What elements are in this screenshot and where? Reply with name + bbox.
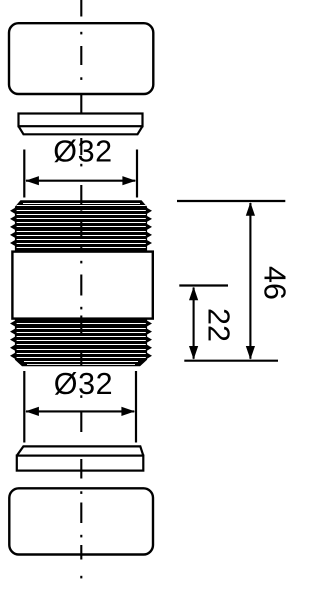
nut N1 (top coupling nut) [9, 23, 153, 94]
thread T2 (lower external thread) [10, 320, 152, 367]
dimension D1 line with arrows [26, 180, 135, 182]
svg-text:22: 22 [202, 308, 236, 342]
shared bottom extension line [184, 360, 278, 362]
nut N2 (bottom coupling nut) [9, 488, 153, 554]
svg-text:Ø32: Ø32 [54, 367, 113, 401]
dimension D3 (46) extension line top [177, 200, 285, 202]
washer W2 (bottom conical gasket) [17, 446, 144, 470]
dimension D2 line with arrows [26, 410, 134, 412]
svg-text:Ø32: Ø32 [53, 135, 112, 169]
dimension D2 label Ø32 (bottom) [54, 367, 113, 401]
dimension D2 extension lines [23, 371, 25, 443]
pipe body (smooth middle section) [12, 252, 152, 319]
dimension D1 extension lines [23, 150, 25, 198]
washer W1 (top conical gasket) [19, 114, 143, 135]
dimension D4 line with arrows (22) [193, 288, 195, 359]
centerline (dash-dot axis) [80, 0, 82, 17]
dimension D4 (22) extension line [179, 284, 228, 286]
thread T1 (upper external thread) [10, 200, 152, 251]
dimension D1 label Ø32 (top) [53, 135, 112, 169]
dimension D3 label 46 [258, 266, 292, 300]
svg-text:46: 46 [258, 266, 292, 300]
dimension D3 line with arrows (46) [249, 203, 251, 359]
dimension D4 label 22 [202, 308, 236, 342]
